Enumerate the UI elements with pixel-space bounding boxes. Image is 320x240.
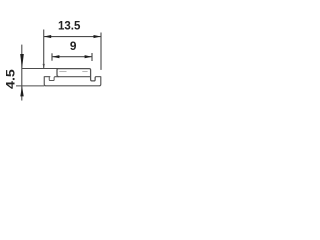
hat: left wall, top, right wall continuing into right T-slot — [57, 69, 96, 81]
dim 9 right tick — [91, 53, 93, 61]
dim 9 left tick — [51, 53, 53, 60]
small down arrow at left extension bottom — [43, 64, 45, 69]
dim 4.5 top extension line — [22, 68, 59, 70]
dim 13.5 line — [44, 36, 101, 38]
dim 4.5 bottom arrow (up) — [20, 86, 23, 96]
dim 4.5 vertical line — [21, 45, 23, 101]
profile surface line right segment — [96, 76, 101, 78]
svg-text:9: 9 — [70, 39, 77, 53]
svg-text:13.5: 13.5 — [58, 19, 81, 33]
dim 9 left arrow — [52, 55, 59, 58]
dim 9 right arrow — [85, 55, 92, 58]
inner top line left segment — [59, 71, 66, 73]
dim 13.5 right extension line — [100, 33, 102, 70]
profile surface line left segment — [44, 76, 50, 78]
profile outer rim: sides and bottom — [44, 76, 101, 85]
dim 4.5 bottom extension line — [16, 85, 44, 87]
dim 4.5 top arrow (down) — [20, 54, 24, 68]
dim 13.5 left extension line — [43, 30, 45, 69]
dim 13.5 right arrow — [94, 35, 102, 38]
dim 13.5 left arrow — [44, 35, 51, 38]
profile surface line middle segment — [55, 76, 91, 78]
dim 9 line — [52, 56, 92, 58]
left T-slot — [49, 77, 55, 81]
svg-text:4.5: 4.5 — [4, 69, 18, 89]
inner top line right segment — [82, 71, 87, 73]
